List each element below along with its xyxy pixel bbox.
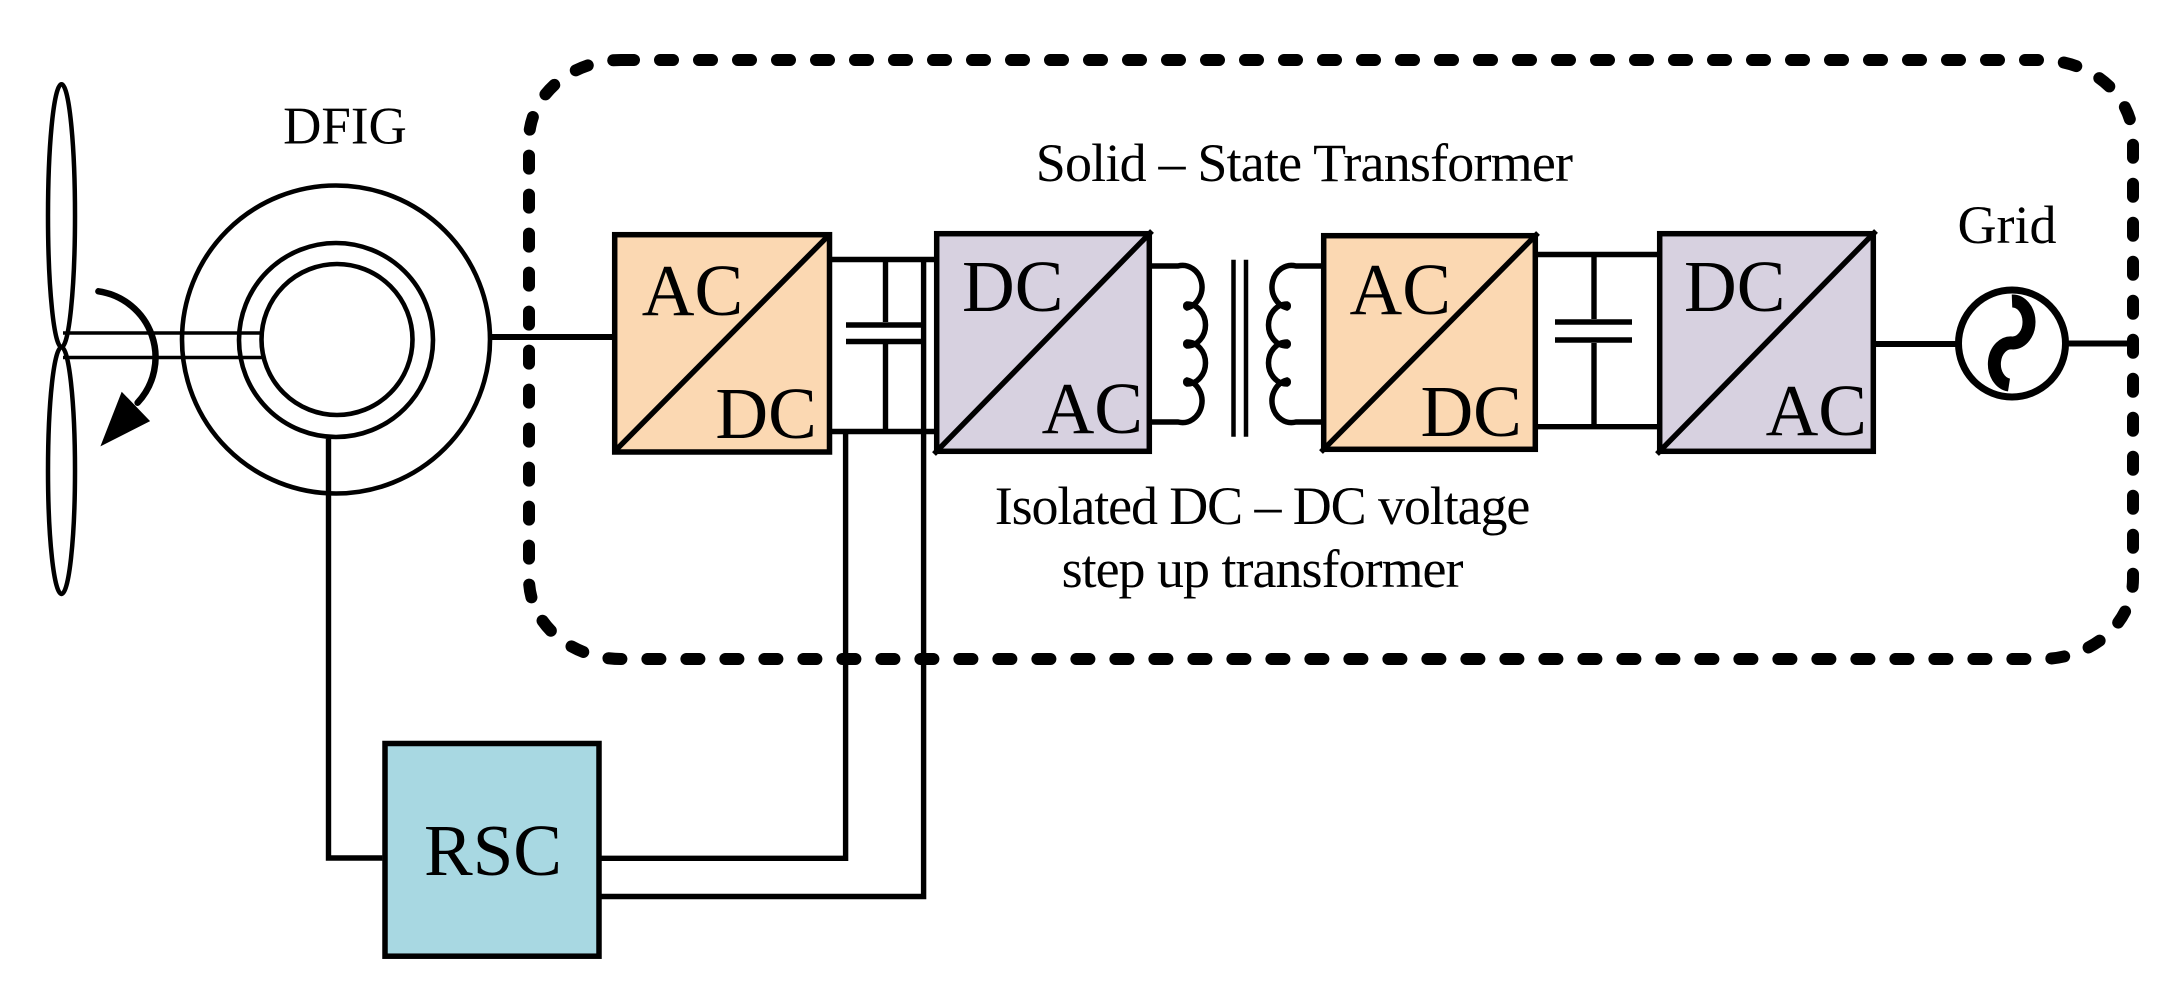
svg-text:DC: DC [715,373,816,454]
rotation arrowhead [100,392,150,447]
DFIG rotor circle [262,264,413,415]
DC link 2 bottom rail [1538,424,1657,429]
converter U3 AC/DC (orange) [1321,233,1538,452]
svg-text:AC: AC [642,250,743,331]
svg-text:Solid – State Transformer: Solid – State Transformer [1036,133,1573,193]
DC link 1 top rail [830,257,937,262]
svg-text:AC: AC [1766,370,1867,451]
wire DC-link top rail down to RSC [601,260,923,897]
capacitor C2 [1555,255,1632,427]
converter U1 AC/DC (rotor-side of SST) [614,234,830,454]
wire grid source to boundary [2066,341,2134,347]
DC link 1 bottom rail [830,429,937,434]
DFIG outer circle [182,186,490,494]
svg-text:Isolated DC – DC voltage: Isolated DC – DC voltage [995,476,1530,536]
svg-text:AC: AC [1042,368,1143,449]
svg-text:DC: DC [1420,371,1521,452]
capacitor C1 [846,260,921,432]
transformer primary coil [1148,265,1206,422]
svg-text:RSC: RSC [424,810,562,891]
wire DC-link bottom rail down to RSC [601,432,845,859]
rotor wire down from DFIG [329,439,383,858]
RSC converter box [385,744,599,957]
DC link 2 top rail [1538,252,1657,257]
svg-text:Grid: Grid [1958,195,2057,255]
wire converter 4 to grid source [1876,341,1958,347]
wind turbine blade top [48,84,75,347]
transformer secondary coil [1269,265,1327,422]
svg-text:step up transformer: step up transformer [1062,539,1464,599]
svg-text:DC: DC [962,246,1063,327]
converter U4 DC/AC (purple) [1657,231,1876,454]
stator wire to converter 1 [490,334,614,340]
transformer core [1234,260,1247,437]
grid AC source circle [1959,290,2066,397]
turbine shaft [63,333,264,358]
svg-text:AC: AC [1350,249,1451,330]
svg-text:DFIG: DFIG [283,98,407,156]
grid sine glyph [1994,301,2029,385]
wind turbine blade bottom [48,347,75,594]
converter U2 DC/AC (purple) [934,231,1152,454]
svg-text:DC: DC [1684,246,1785,327]
rotation arrow arc [98,291,155,402]
SST dashed boundary box [529,60,2133,659]
DFIG stator circle [239,243,433,437]
